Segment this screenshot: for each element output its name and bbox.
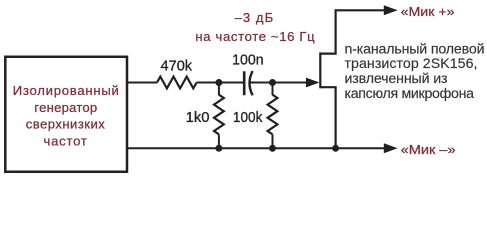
resistor 100k (268, 95, 278, 135)
arrowhead to Mic + (384, 5, 398, 15)
generator label text (13, 83, 119, 148)
capacitor 100n right curved plate (250, 71, 253, 95)
transistor Q1 channel bar (319, 52, 321, 88)
node A junction dot (215, 79, 222, 86)
resistor 1k0 (214, 95, 224, 135)
wire: R1 to capacitor (197, 82, 244, 84)
svg-text:«Мик +»: «Мик +» (401, 4, 455, 19)
svg-text:100n: 100n (232, 51, 264, 68)
wire: R3 to bottom rail (272, 134, 274, 148)
svg-text:Изолированный: Изолированный (13, 83, 119, 98)
svg-text:1k0: 1k0 (186, 109, 210, 126)
annotation -3 dB note (195, 10, 315, 44)
generator block G1 (5, 57, 127, 172)
capacitor 100n left plate (243, 71, 246, 95)
svg-text:капсюля микрофона: капсюля микрофона (345, 86, 475, 102)
wire: R2 to bottom rail (218, 134, 220, 148)
transistor Q1 drain lead (320, 10, 384, 53)
wire: capacitor to JFET gate (251, 82, 308, 84)
bottom rail junction dot at R3 (269, 145, 276, 152)
bottom rail wire (127, 147, 385, 149)
node B junction dot (269, 79, 276, 86)
svg-text:транзистор 2SK156,: транзистор 2SK156, (345, 56, 478, 72)
svg-text:извлеченный из: извлеченный из (345, 71, 448, 87)
transistor Q1 source lead (320, 87, 335, 148)
resistor 470k (157, 77, 197, 89)
svg-text:сверхнизких: сверхнизких (26, 117, 105, 132)
svg-text:генератор: генератор (34, 100, 97, 115)
arrowhead to Mic - (384, 143, 398, 153)
svg-text:n-канальный полевой: n-канальный полевой (345, 41, 485, 57)
node C junction dot (332, 145, 339, 152)
wire: generator output to R1 (127, 82, 157, 84)
annotation transistor note (345, 41, 485, 102)
svg-text:–3 дБ: –3 дБ (235, 10, 274, 25)
bottom rail junction dot at R2 (215, 145, 222, 152)
svg-text:частот: частот (44, 133, 87, 148)
svg-text:на частоте ~16 Гц: на частоте ~16 Гц (195, 29, 315, 44)
JFET gate arrowhead (306, 78, 320, 88)
svg-text:470k: 470k (161, 58, 193, 75)
svg-text:«Мик –»: «Мик –» (401, 142, 456, 157)
wire: node A down to R2 (218, 83, 220, 96)
wire: node B down to R3 (272, 83, 274, 96)
svg-text:100k: 100k (233, 109, 263, 126)
